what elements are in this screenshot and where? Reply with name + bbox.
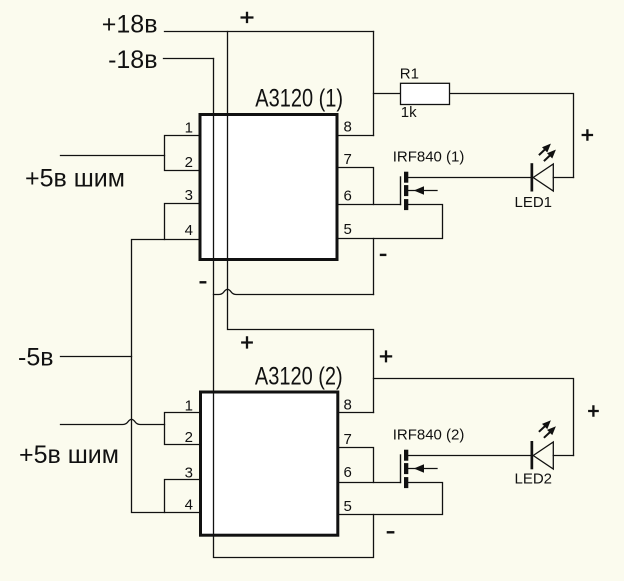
svg-text:1: 1 [185, 119, 193, 136]
svg-text:5: 5 [344, 498, 352, 515]
svg-text:+5в шим: +5в шим [19, 441, 119, 469]
svg-text:IRF840 (1): IRF840 (1) [393, 149, 465, 166]
svg-text:5: 5 [344, 221, 352, 238]
svg-text:-5в: -5в [18, 344, 54, 372]
svg-text:4: 4 [185, 222, 193, 239]
svg-text:1: 1 [185, 397, 193, 414]
svg-text:1k: 1k [401, 104, 417, 121]
svg-text:LED1: LED1 [515, 194, 553, 211]
svg-text:+18в: +18в [102, 11, 158, 39]
svg-text:2: 2 [185, 154, 193, 171]
svg-text:3: 3 [185, 464, 193, 481]
svg-text:8: 8 [344, 119, 352, 136]
svg-text:2: 2 [185, 429, 193, 446]
svg-text:-18в: -18в [108, 46, 157, 74]
svg-text:+5в шим: +5в шим [25, 165, 125, 193]
svg-text:LED2: LED2 [515, 471, 553, 488]
svg-text:7: 7 [344, 151, 352, 168]
svg-text:8: 8 [344, 396, 352, 413]
svg-text:IRF840 (2): IRF840 (2) [393, 427, 465, 444]
svg-text:3: 3 [185, 187, 193, 204]
svg-text:7: 7 [344, 431, 352, 448]
svg-text:А3120 (2): А3120 (2) [255, 362, 343, 390]
svg-text:6: 6 [344, 464, 352, 481]
svg-text:R1: R1 [400, 66, 419, 83]
svg-text:4: 4 [185, 496, 193, 513]
svg-text:6: 6 [344, 187, 352, 204]
svg-text:А3120 (1): А3120 (1) [255, 84, 343, 112]
